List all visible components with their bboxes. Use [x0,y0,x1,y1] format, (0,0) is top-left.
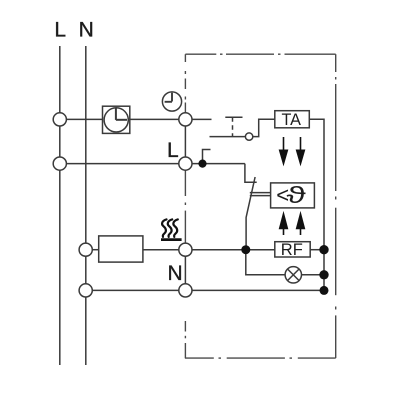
svg-text:RF: RF [281,241,303,259]
svg-text:L: L [54,19,66,42]
svg-text:N: N [79,19,94,42]
svg-text:ϑ: ϑ [287,182,307,208]
svg-text:L: L [167,139,179,162]
svg-text:TA: TA [282,111,302,129]
svg-text:N: N [168,262,183,285]
